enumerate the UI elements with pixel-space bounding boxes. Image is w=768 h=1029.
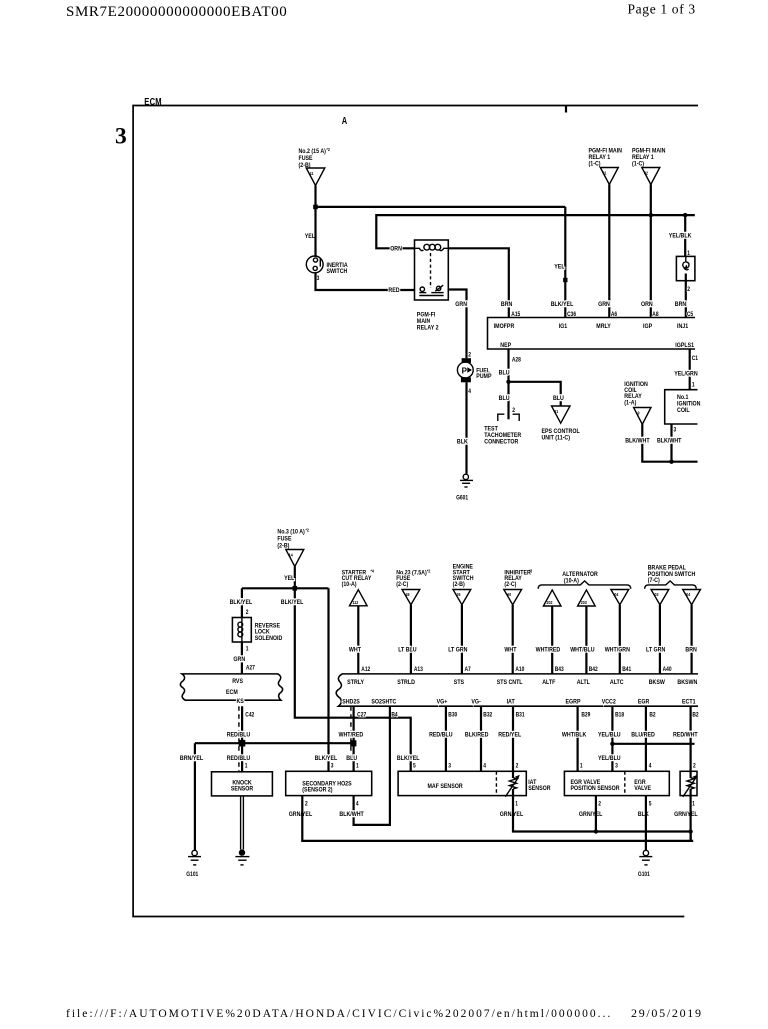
svg-text:IGPLS1: IGPLS1 [675,341,694,349]
svg-text:B41: B41 [622,666,631,673]
svg-text:file:///F:/AUTOMOTIVE%20DATA/H: file:///F:/AUTOMOTIVE%20DATA/HONDA/CIVIC… [66,1008,612,1020]
fuse No.23 (7.5A) triangle [396,568,431,605]
wire fuel pump to ground [465,382,467,474]
svg-text:BLU: BLU [553,394,564,402]
wire C1 column [689,349,691,390]
wire label LT GRN (STS) [448,646,467,654]
svg-text:G101: G101 [186,872,198,879]
pin C1 [692,356,698,363]
junction fuse3 node [293,586,298,591]
brake switch triangle BKSWN [683,590,701,605]
svg-text:(SENSOR 2): (SENSOR 2) [302,786,332,794]
svg-text:IG1: IG1 [559,322,568,330]
wire STS column [461,605,463,674]
svg-text:RED/BLU: RED/BLU [227,754,251,762]
svg-text:1: 1 [246,646,249,653]
svg-text:YEL/BLK: YEL/BLK [669,232,692,240]
svg-text:RED/BLU: RED/BLU [227,731,251,739]
splice dot IG1 [563,278,567,282]
wire label WHT/GRN [605,646,630,654]
wire label BLK/RED (VG-) [465,731,489,739]
svg-text:112: 112 [353,600,359,606]
wire label BLK/YEL (MAF feed) [281,599,304,607]
svg-text:SMR7E20000000000000EBAT00: SMR7E20000000000000EBAT00 [66,4,287,20]
svg-text:(1-C): (1-C) [589,160,601,168]
svg-text:LT BLU: LT BLU [398,646,417,654]
svg-text:GRN/YEL: GRN/YEL [674,810,698,818]
pin A8 [652,312,658,319]
wire label BLU (A28) [499,369,510,377]
wire KS shielded column [239,706,242,772]
wire IAT column [512,706,514,771]
svg-text:3: 3 [317,276,320,283]
svg-text:VG+: VG+ [437,698,448,706]
svg-text:1: 1 [356,763,359,770]
pin B4 [391,712,398,719]
wire VCC2 column [611,706,613,771]
svg-text:KS: KS [236,698,243,706]
pin 2 (fuel pump) [468,352,471,359]
pin 1 (IAT) [515,801,518,808]
svg-text:B32: B32 [483,712,492,719]
relay U1 PGM-FI MAIN RELAY 1 triangle 1 [589,147,622,185]
wire label LT GRN (BKSW) [646,646,665,654]
fuel pump motor [457,358,491,382]
node A label [342,115,348,126]
wire ignition coil ground [670,424,672,462]
wire label RED/BLU (knock) [227,754,251,762]
wire label BLK/YEL (solenoid) [230,599,253,607]
pin 2 (noise condenser) [687,286,690,293]
svg-text:*2: *2 [327,147,331,153]
svg-text:WHT/GRN: WHT/GRN [605,646,630,654]
svg-text:B2: B2 [692,712,698,719]
wire ECT to bus [689,796,691,841]
svg-text:2: 2 [598,801,601,808]
svg-text:B43: B43 [555,666,564,673]
wire IGP column [650,185,652,318]
svg-text:5: 5 [413,763,416,770]
svg-text:LT GRN: LT GRN [448,646,467,654]
svg-text:B29: B29 [581,712,590,719]
svg-text:VALVE: VALVE [634,785,651,793]
wire ALTC column [619,605,621,674]
svg-text:B18: B18 [615,712,624,719]
wire BLK/YEL MAF feed [295,588,411,771]
wire label GRN/YEL (ECT) [674,810,698,818]
wire EGR sensor to bus [595,796,597,832]
wire STRLY column [357,606,359,674]
wire INJ1 column upper [684,215,686,256]
ECM frame label [144,96,162,107]
svg-text:BLU: BLU [499,394,510,402]
wire knock shield horizontal [195,742,354,744]
wire fuse3 drop [294,567,296,589]
svg-text:NEP: NEP [500,341,511,349]
svg-text:IGP: IGP [643,322,652,330]
pin B18 [615,712,624,719]
svg-text:CONNECTOR: CONNECTOR [484,438,519,446]
svg-text:RVS: RVS [232,678,243,686]
svg-text:2: 2 [693,763,696,770]
wire GRN/YEL bus lower [302,796,693,841]
svg-text:ALTL: ALTL [577,679,590,687]
fuse F41 No.2 (15A) [299,147,331,186]
wire inertia to relay2 RED [316,273,415,290]
pin A13 [414,666,423,673]
ignition coil No.1 box [665,390,701,424]
svg-text:(2-B): (2-B) [453,581,465,589]
svg-text:IMOFPR: IMOFPR [494,322,515,330]
svg-text:202: 202 [547,600,554,606]
junction dot VCC2 [610,742,614,746]
svg-text:ALTC: ALTC [610,679,624,687]
svg-text:SENSOR: SENSOR [231,785,254,793]
svg-text:01: 01 [554,409,559,415]
svg-text:49: 49 [406,591,411,597]
pin 2 (solenoid) [246,609,249,616]
svg-text:STRLY: STRLY [347,679,364,687]
pin 4 (MAF) [483,763,486,770]
pin 2 (IAT) [516,763,519,770]
svg-text:YEL/GRN: YEL/GRN [674,370,698,378]
svg-text:3: 3 [615,763,618,770]
svg-text:3: 3 [448,763,451,770]
wire label WHT (STRLY) [349,646,361,654]
svg-text:STS: STS [454,679,464,687]
wire IG1 column [564,207,566,318]
pin A27 [246,665,255,672]
svg-text:WHT/RED: WHT/RED [536,646,561,654]
svg-text:1: 1 [245,763,248,770]
wire label WHT/RED [536,646,561,654]
svg-text:1: 1 [692,382,695,389]
wire label RED [388,287,400,295]
pin A10 [515,666,524,673]
svg-text:(7-C): (7-C) [648,577,660,585]
svg-text:GRN/YEL: GRN/YEL [579,810,603,818]
wire label GRN/YEL (HO2S) [289,810,313,818]
svg-text:BKSW: BKSW [649,679,665,687]
ECT sensor box [680,771,697,795]
svg-text:2: 2 [246,609,249,616]
svg-text:STRLD: STRLD [397,679,415,687]
footer file url [66,1008,612,1020]
svg-text:BLK/YEL: BLK/YEL [281,599,304,607]
svg-text:MAF SENSOR: MAF SENSOR [427,782,463,790]
svg-text:ECM: ECM [144,96,162,107]
wire NEP to test tach [507,382,509,420]
svg-text:14: 14 [289,552,294,558]
wire label YEL (fuse3) [284,574,295,582]
wire EGR valve ground column [645,796,647,851]
svg-text:B31: B31 [516,712,525,719]
svg-text:BLK/YEL: BLK/YEL [551,301,574,309]
EPS control unit triangle [542,406,580,442]
svg-text:A27: A27 [246,665,255,672]
wire YEL inertia drop [305,233,316,241]
EGR valve position sensor box [564,771,669,795]
svg-text:2: 2 [687,286,690,293]
svg-text:YEL: YEL [305,233,316,241]
relay K2 PGM-FI MAIN RELAY 2 [415,240,449,332]
svg-text:C27: C27 [357,712,366,719]
test tachometer connector [484,414,521,446]
pin C27 [357,712,366,719]
wire label ORN (relay2 coil) [390,245,402,253]
svg-text:BRN: BRN [685,646,696,654]
wire label GRN (fuel pump) [455,301,467,309]
svg-text:BLU/RED: BLU/RED [631,731,655,739]
pin C5 [687,312,693,319]
wire SO2SHTC column [354,706,390,825]
svg-text:POSITION SENSOR: POSITION SENSOR [570,785,620,793]
svg-text:4: 4 [356,801,359,808]
wire label ORN (IGP) [641,301,653,309]
svg-text:5: 5 [649,801,652,808]
wire NEP to EPS branch [509,382,561,406]
svg-text:VG-: VG- [471,698,480,706]
svg-text:GRN/YEL: GRN/YEL [289,810,313,818]
svg-text:ALTF: ALTF [542,679,555,687]
svg-text:RED/BLU: RED/BLU [429,731,453,739]
svg-text:A12: A12 [361,666,370,673]
svg-text:(2-B): (2-B) [277,542,289,550]
svg-text:A7: A7 [464,666,470,673]
svg-text:YEL: YEL [284,574,295,582]
pin 2 (test tach) [512,407,515,414]
svg-text:04: 04 [686,591,691,597]
pin A28 [512,357,521,364]
thermistor ECT [683,771,698,797]
wire label YEL/BLU lower [598,755,621,763]
svg-text:A40: A40 [663,666,672,673]
svg-text:3: 3 [331,763,334,770]
wire VCC2 to ECT branch [612,743,694,745]
wire EGRP column [576,706,578,771]
alternator group label [538,571,631,589]
wire ignition coil relay down [642,424,697,461]
pin 3 (MAF) [448,763,451,770]
svg-text:BRN/YEL: BRN/YEL [180,754,203,762]
svg-text:1: 1 [692,801,695,808]
svg-text:GRN: GRN [233,656,245,664]
alternator triangle ALTC [611,590,629,605]
svg-text:3: 3 [673,427,676,434]
svg-text:60: 60 [507,591,512,597]
wire VG+ column [445,706,447,771]
svg-text:BLK: BLK [638,810,649,818]
starter cut relay triangle [342,568,375,606]
svg-text:*4: *4 [371,568,375,574]
wire solenoid to flag [241,642,243,674]
MAF sensor box [398,771,526,795]
svg-text:BLK/WHT: BLK/WHT [339,810,364,818]
junction dot NEP branch [506,380,510,384]
svg-text:4: 4 [483,763,486,770]
wire label BRN (INJ1) [675,301,686,309]
ECM flag RVS/KS [180,674,282,706]
pin 4 (EGR valve) [649,763,652,770]
svg-text:BRN: BRN [675,301,686,309]
pin 1 (EGR sensor) [580,763,583,770]
ECM connector box row 1 [488,318,696,350]
svg-text:YEL/BLU: YEL/BLU [598,731,621,739]
svg-text:SWITCH: SWITCH [327,267,348,275]
thermistor IAT [505,771,520,797]
wire relay2 contact to fuel pump [448,290,466,359]
pin 3 (EGR sensor) [615,763,618,770]
svg-text:WHT/BLK: WHT/BLK [562,731,587,739]
wire label BRN (A15) [501,301,512,309]
svg-text:RED: RED [388,287,400,295]
svg-text:ECT1: ECT1 [682,698,696,706]
svg-text:SOLENOID: SOLENOID [255,634,283,642]
pin 3 (inertia) [317,276,320,283]
svg-text:2: 2 [305,801,308,808]
wire solenoid column [241,588,243,617]
wire INJ1 column lower [685,281,687,318]
wire label YEL (IG1) [554,263,565,271]
svg-text:C42: C42 [245,712,254,719]
svg-text:RED/YEL: RED/YEL [498,731,521,739]
junction fuse2 node [313,205,318,210]
pin 1 (knock) [245,763,248,770]
svg-text:4: 4 [468,388,471,395]
noise condenser C1 box [676,256,695,280]
svg-text:BLK/YEL: BLK/YEL [397,754,420,762]
pin 3 (HO2S) [331,763,334,770]
alternator triangle ALTF [543,590,561,606]
svg-text:(1-A): (1-A) [624,399,636,407]
svg-text:WHT: WHT [349,646,361,654]
wire VG- column [480,706,482,771]
pin B31 [516,712,525,719]
wire label YEL/BLK [669,232,692,240]
svg-text:02: 02 [644,170,649,176]
pin A12 [361,666,370,673]
junction dot knock branch [239,740,246,747]
svg-text:BLU: BLU [346,754,357,762]
wire label BLU/RED (EGR) [631,731,655,739]
svg-text:WHT/BLU: WHT/BLU [570,646,595,654]
pin 2 (EGR sensor) [598,801,601,808]
svg-text:BLK/YEL: BLK/YEL [315,754,338,762]
svg-text:*3: *3 [529,568,533,574]
svg-text:P: P [462,366,468,375]
wire BLK/YEL HO2S feed [327,588,329,771]
svg-text:1: 1 [580,763,583,770]
svg-text:C1: C1 [692,356,698,363]
wire fuse2 drop [314,186,316,207]
svg-text:ECM: ECM [226,689,238,697]
svg-text:B2: B2 [649,712,655,719]
frame tick mark [565,106,567,113]
wire BKSW column [659,605,661,674]
svg-text:41: 41 [310,171,315,177]
pin B30 [448,712,457,719]
svg-text:A13: A13 [414,666,423,673]
svg-text:B42: B42 [589,666,598,673]
wire label BRN (BKSWN) [685,646,696,654]
wire label BLK (EGR valve) [638,810,649,818]
wire ALTF column [551,606,553,674]
svg-text:04: 04 [614,591,619,597]
svg-text:26: 26 [457,591,462,597]
fuse F14 No.3 (10A) [277,527,309,566]
ground G601 [456,474,473,502]
inertia switch S1 [306,207,348,275]
wire label BLK/YEL (MAF pin5) [397,754,420,762]
pin C42 [245,712,254,719]
wire label YEL/GRN [674,370,698,378]
pin 1 (HO2S) [356,763,359,770]
wire label BLU (EPS) [553,394,564,402]
bus B horizontal [376,215,695,248]
svg-text:9: 9 [638,410,641,416]
ECM frame box [133,106,698,917]
svg-text:(2-C): (2-C) [504,581,516,589]
svg-text:YEL/BLU: YEL/BLU [598,755,621,763]
svg-text:MRLY: MRLY [596,322,611,330]
wire ALTL column [585,606,587,674]
svg-text:(10-A): (10-A) [564,577,579,585]
svg-text:IAT: IAT [507,698,515,706]
wire label GRN (A27) [233,656,245,664]
wire BKSWN column [690,605,692,674]
junction dot EGR sensor bus [594,829,598,833]
pin B43 [555,666,564,673]
wire label YEL/BLU (VCC2) [598,731,621,739]
pin 4 (HO2S) [356,801,359,808]
wire label BLK/WHT (HO2S) [339,810,364,818]
pin B32 [483,712,492,719]
brake switch triangle BKSW [651,590,669,605]
pin 1 (ignition coil) [692,382,695,389]
alternator triangle ALTL [578,590,596,606]
svg-text:A: A [342,115,348,126]
svg-text:G601: G601 [456,495,468,502]
wire label LT BLU [398,646,417,654]
wire BRN/YEL ground column [194,743,196,850]
svg-text:*2: *2 [427,568,431,574]
svg-text:BLK/WHT: BLK/WHT [657,437,682,445]
svg-text:B4: B4 [391,712,398,719]
svg-text:SO2SHTC: SO2SHTC [371,698,397,706]
ground G101 right [638,850,652,878]
svg-text:A28: A28 [512,357,521,364]
pin B42 [589,666,598,673]
pin 1 (solenoid) [246,646,249,653]
svg-text:RED/WHT: RED/WHT [673,731,698,739]
junction dot bus right [688,829,692,833]
wire label RED/WHT (ECT1) [673,731,698,739]
svg-text:BRN: BRN [501,301,512,309]
svg-text:GRN: GRN [455,301,467,309]
wire label BLK [457,438,468,446]
svg-text:4: 4 [649,763,652,770]
junction dot INJ1 bus [683,213,687,217]
pin 5 (MAF) [413,763,416,770]
wire STS CNTL column [512,605,514,674]
svg-text:BLK/YEL: BLK/YEL [230,599,253,607]
wire label WHT (STS CNTL) [504,646,516,654]
wire A horizontal bus [316,206,566,208]
junction dot IGP bus [649,213,653,217]
wire MRLY column [608,185,610,318]
junction dot BLK/WHT [669,460,673,464]
svg-text:WHT: WHT [504,646,516,654]
